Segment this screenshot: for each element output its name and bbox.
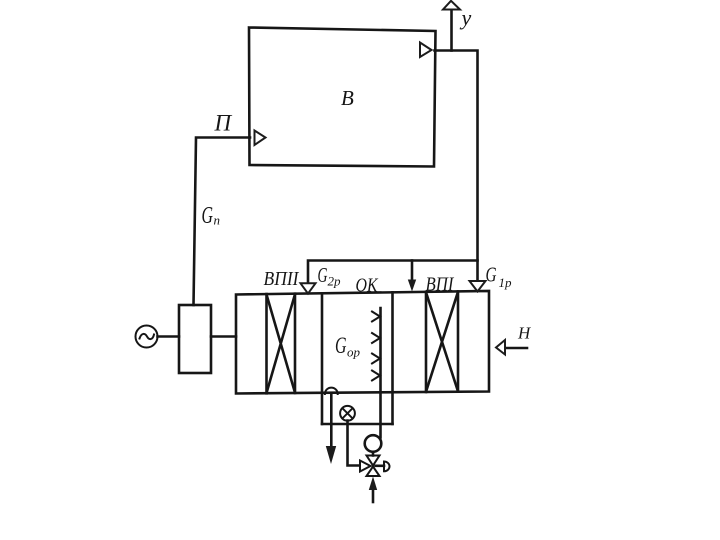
svg-text:1р: 1р [499,275,513,290]
svg-text:G: G [335,333,347,358]
svg-text:В: В [341,86,354,110]
svg-text:ОК: ОК [356,275,379,297]
svg-text:П: П [214,111,233,136]
svg-text:G: G [318,263,328,287]
svg-text:п: п [214,213,221,228]
svg-text:у: у [460,5,472,30]
svg-text:Н: Н [517,324,532,343]
svg-text:G: G [202,203,214,229]
svg-text:G: G [486,263,497,287]
svg-text:2р: 2р [328,274,342,289]
svg-text:ВПI: ВПI [426,275,455,296]
svg-text:ВПII: ВПII [264,269,300,290]
svg-text:ор: ор [347,345,361,360]
